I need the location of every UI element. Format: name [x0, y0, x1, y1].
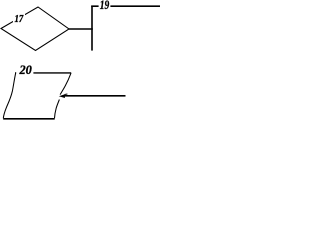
arrow wire into parallelogram — [64, 95, 126, 97]
parallelogram block 20 : top edge — [15, 72, 71, 74]
label 17 — [13, 13, 25, 25]
svg-text:20: 20 — [19, 63, 32, 77]
label 19 — [99, 0, 111, 12]
vertical wire at x=92 — [91, 6, 93, 51]
svg-text:17: 17 — [15, 14, 25, 25]
wire diamond right vertex to vertical line — [69, 28, 93, 30]
decision diamond block 17 — [1, 7, 69, 51]
label 20 — [16, 63, 33, 77]
parallelogram right edge upper — [60, 73, 71, 95]
parallelogram left edge — [3, 73, 15, 118]
parallelogram right edge lower — [55, 100, 60, 119]
arrowhead upper wing — [65, 93, 68, 96]
top horizontal wire to right edge — [91, 5, 160, 7]
arrowhead — [59, 94, 65, 98]
svg-text:19: 19 — [100, 0, 110, 12]
parallelogram bottom edge — [3, 118, 55, 120]
